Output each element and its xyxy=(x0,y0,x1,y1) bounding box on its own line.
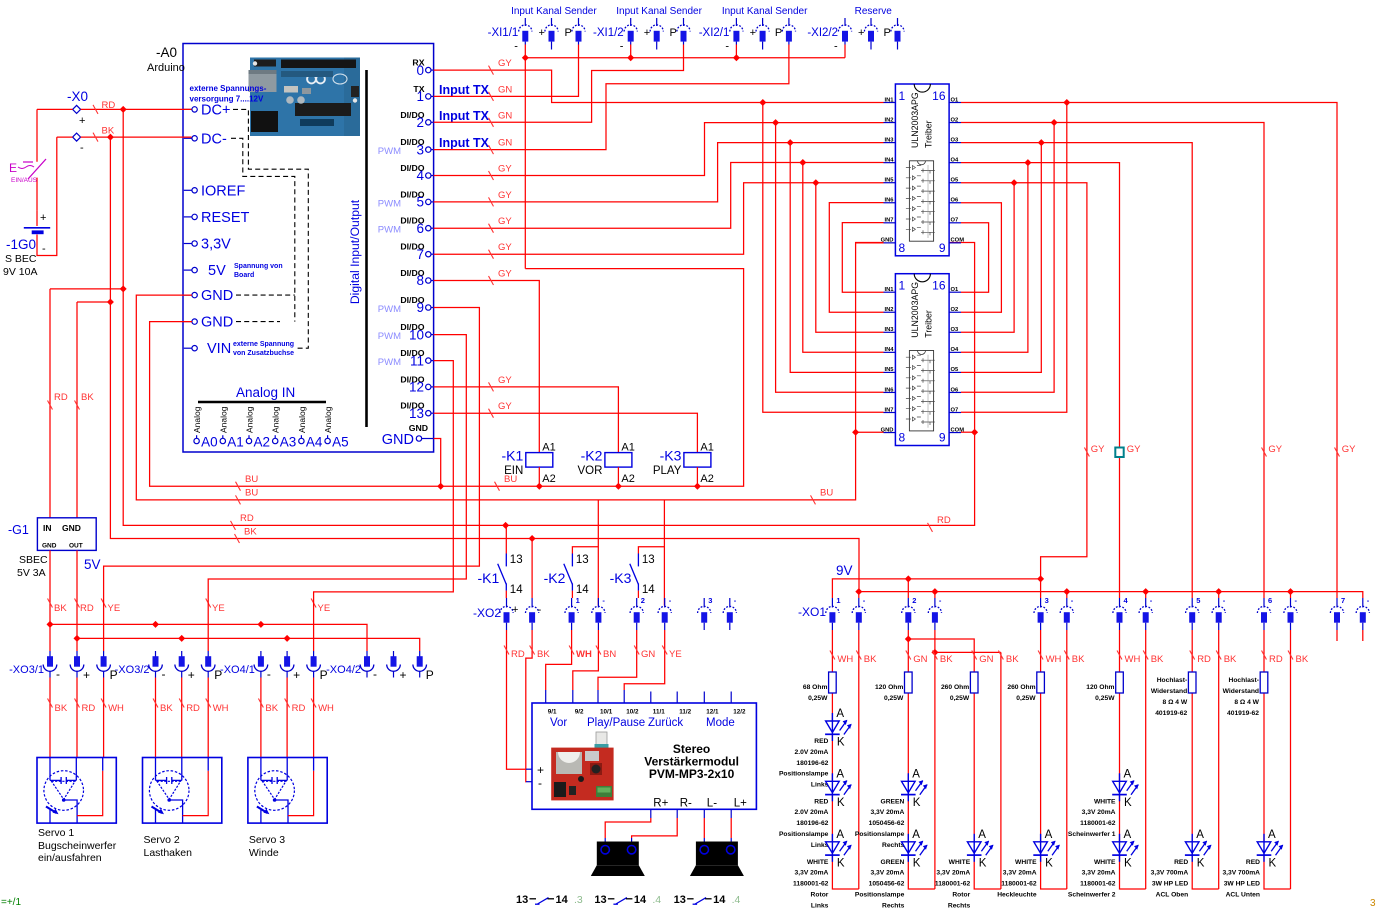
svg-text:3,3V 20mA: 3,3V 20mA xyxy=(870,870,904,877)
svg-text:Input TX: Input TX xyxy=(439,136,490,150)
svg-text:-XI2/1: -XI2/1 xyxy=(699,27,730,39)
svg-text:A: A xyxy=(836,708,844,720)
LED column 5 row 3 xyxy=(1112,829,1139,870)
svg-text:RESET: RESET xyxy=(201,210,249,226)
svg-text:RD: RD xyxy=(1197,654,1211,665)
contact -K3 13-14 xyxy=(610,554,656,597)
arduino pin GND bottom-right xyxy=(382,423,434,448)
svg-text:O7: O7 xyxy=(951,218,959,224)
svg-text:68 Ohm: 68 Ohm xyxy=(803,684,828,691)
svg-text:Treiber: Treiber xyxy=(924,120,934,148)
connector -XO4/1 xyxy=(220,664,255,676)
junction dot bus XI1/1 xyxy=(522,54,529,61)
svg-text:1180001-62: 1180001-62 xyxy=(935,881,971,888)
wire minus bus servo connectors xyxy=(50,624,367,651)
-XO3/1 pin + xyxy=(70,651,84,678)
connector XO1 pin 2 xyxy=(902,598,915,630)
svg-text:1: 1 xyxy=(899,279,906,293)
svg-text:IN2: IN2 xyxy=(884,307,893,313)
svg-text:P: P xyxy=(775,27,782,39)
analog in underline xyxy=(198,401,326,403)
module pin 11/1 xyxy=(651,692,665,716)
svg-text:Input Kanal Sender: Input Kanal Sender xyxy=(722,6,808,17)
arduino pin A2 xyxy=(245,406,271,449)
svg-text:.4: .4 xyxy=(652,894,661,906)
arduino pin 5V y=270.1 xyxy=(184,263,226,279)
svg-text:-: - xyxy=(80,142,84,154)
arduino pin DC+ y=109.4 xyxy=(184,102,231,118)
U1 pin O7 xyxy=(949,218,961,224)
svg-text:Input TX: Input TX xyxy=(439,109,490,123)
svg-text:IN5: IN5 xyxy=(884,178,894,184)
junction dot RD xyxy=(120,106,127,113)
svg-text:6: 6 xyxy=(416,221,424,236)
svg-text:K: K xyxy=(1124,797,1132,809)
svg-text:Arduino: Arduino xyxy=(147,62,185,74)
svg-text:Lasthaken: Lasthaken xyxy=(144,847,193,859)
svg-text:K: K xyxy=(1197,857,1205,869)
arduino module A0 outline xyxy=(183,44,434,453)
svg-text:0: 0 xyxy=(416,63,424,78)
U2 pin O2 xyxy=(949,307,961,313)
svg-text:O3: O3 xyxy=(951,327,960,333)
svg-text:SBEC: SBEC xyxy=(19,554,48,566)
svg-text:13: 13 xyxy=(409,406,424,421)
connector XO1 pin - xyxy=(1212,598,1225,630)
connector -XI1/1 pin + xyxy=(545,18,558,50)
svg-text:RD: RD xyxy=(937,515,951,526)
wire pin12 GY to relay K2 A1 xyxy=(434,387,619,453)
svg-text:K: K xyxy=(913,797,921,809)
svg-text:Reserve: Reserve xyxy=(855,6,893,17)
connector -XI2/2 pin P xyxy=(891,18,904,50)
svg-text:RED: RED xyxy=(1246,859,1260,866)
wire GND2 BU net relays xyxy=(150,269,744,487)
svg-text:O4: O4 xyxy=(951,347,960,353)
svg-text:IN3: IN3 xyxy=(884,137,894,143)
wire XO2 GN to module 10/1 xyxy=(598,630,637,690)
U2 pin O7 xyxy=(949,407,961,413)
module pin + xyxy=(526,763,544,777)
contact -K2 13-14 xyxy=(544,554,590,597)
connector -XI2/1 pin P xyxy=(782,18,795,45)
svg-text:RD: RD xyxy=(1269,654,1283,665)
connector XO1 pin - xyxy=(928,598,941,630)
svg-text:14: 14 xyxy=(556,894,569,906)
junction dot minus bus XO4/1 xyxy=(257,621,264,628)
U1 pin O3 xyxy=(949,137,961,143)
speaker right channel xyxy=(591,842,645,877)
wire LED column 6 feed xyxy=(1192,630,1219,889)
svg-text:OUT: OUT xyxy=(69,543,83,550)
contact reference 13-14 .4 xyxy=(674,894,741,906)
svg-text:L-: L- xyxy=(707,798,717,810)
svg-text:7: 7 xyxy=(1341,596,1345,605)
svg-text:5: 5 xyxy=(1196,596,1200,605)
junction dot branch col3 return xyxy=(931,649,938,656)
junction dot O1 pair xyxy=(1063,99,1070,106)
svg-text:3: 3 xyxy=(1370,898,1376,908)
junction dot rail1 O5 column xyxy=(1037,575,1044,582)
svg-text:-1G0: -1G0 xyxy=(6,237,36,252)
svg-text:16: 16 xyxy=(932,279,946,293)
driver IC U2 ULN2003APG box xyxy=(895,274,949,446)
wire -K1 A2 to BU xyxy=(538,467,540,486)
resistor column 2 120 Ohm 0,25W xyxy=(905,672,913,693)
wire top minus bus xyxy=(525,45,845,58)
junction dot rail2 at 1145.7 xyxy=(1142,588,1149,595)
LED column 4 row 3 xyxy=(1033,829,1060,870)
svg-text:K: K xyxy=(837,797,845,809)
svg-text:3,3V 20mA: 3,3V 20mA xyxy=(795,870,829,877)
U2 pin O3 xyxy=(949,327,961,333)
servo box at 260.9 xyxy=(248,758,327,824)
svg-text:S BEC: S BEC xyxy=(5,253,37,265)
wire IN4 pair to chip2 IN4 xyxy=(803,163,884,353)
svg-text:BK: BK xyxy=(864,654,877,665)
svg-text:IN7: IN7 xyxy=(884,407,893,413)
junction dot RD to K1-13 xyxy=(502,522,509,529)
svg-text:Rechts: Rechts xyxy=(882,902,905,908)
svg-text:K: K xyxy=(1124,857,1132,869)
svg-text:-K3: -K3 xyxy=(660,448,682,464)
svg-text:Mode: Mode xyxy=(706,717,735,729)
svg-text:A1: A1 xyxy=(542,442,555,454)
svg-text:3,3V 700mA: 3,3V 700mA xyxy=(1151,870,1189,877)
svg-text:GREEN: GREEN xyxy=(881,859,905,866)
wire pin6 GY to chip1 IN4 xyxy=(434,163,884,229)
arduino pin VIN y=348.2 xyxy=(184,341,231,357)
svg-text:-: - xyxy=(514,41,518,53)
arduino pin 9 xyxy=(378,295,434,315)
svg-text:-K1: -K1 xyxy=(478,570,500,586)
svg-text:E: E xyxy=(9,161,17,175)
svg-text:GY: GY xyxy=(498,190,512,201)
svg-text:10/1: 10/1 xyxy=(600,709,613,716)
junction dot RD to G1 xyxy=(120,285,127,292)
svg-text:3,3V 20mA: 3,3V 20mA xyxy=(870,809,904,816)
arduino pin A0 xyxy=(192,406,218,449)
wire pin13 GY to relay K3 A1 xyxy=(434,413,698,452)
connector X0 pin 2 diamond xyxy=(73,133,81,141)
svg-text:GY: GY xyxy=(498,58,512,69)
-XO4/1 pin + xyxy=(280,651,294,678)
svg-text:EIN: EIN xyxy=(504,465,523,477)
svg-text:GN: GN xyxy=(498,111,512,122)
LED column 5 row 2 xyxy=(1112,768,1139,809)
svg-text:Links: Links xyxy=(811,902,829,908)
svg-text:14: 14 xyxy=(642,584,655,596)
arduino pin 7 xyxy=(400,242,433,262)
wire IN1 pair to chip2 IN7 xyxy=(763,103,884,413)
junction dot rail2 at 1218.7 xyxy=(1215,588,1222,595)
svg-text:8: 8 xyxy=(416,273,424,288)
wire rail2 to XO1 minus1 xyxy=(858,592,860,598)
junction dot IN2 xyxy=(772,119,779,126)
svg-text:Analog: Analog xyxy=(218,406,228,433)
svg-text:O1: O1 xyxy=(951,287,960,293)
svg-text:Servo 1: Servo 1 xyxy=(38,827,74,839)
svg-text:Zurück: Zurück xyxy=(648,717,683,729)
svg-text:9: 9 xyxy=(939,241,946,255)
svg-text:1050456-62: 1050456-62 xyxy=(869,881,905,888)
connector XO1 pin - xyxy=(1284,598,1297,630)
svg-text:BK: BK xyxy=(1072,654,1085,665)
svg-text:1: 1 xyxy=(576,596,580,605)
junction dot plus bus XO3/2 xyxy=(178,635,185,642)
svg-text:O6: O6 xyxy=(951,387,960,393)
svg-text:RD: RD xyxy=(240,513,254,524)
svg-text:-X0: -X0 xyxy=(67,89,88,104)
resistor column 4 260 Ohm 0,25W xyxy=(1037,672,1045,693)
-XO3/2 pin P xyxy=(201,651,215,678)
relay coil -K2 VOR xyxy=(577,442,634,486)
junction dot BK XO2 pin2 xyxy=(529,535,536,542)
svg-text:0,25W: 0,25W xyxy=(1095,695,1115,702)
arduino pin 6 xyxy=(378,216,434,236)
svg-text:IN5: IN5 xyxy=(884,367,894,373)
junction dot bus XI2/1 xyxy=(733,54,740,61)
wire rail1 to XO1 pin2 xyxy=(907,579,909,598)
wire RD branch to G1 IN xyxy=(50,289,123,518)
svg-text:+: + xyxy=(858,27,864,39)
svg-text:IN6: IN6 xyxy=(884,198,894,204)
svg-text:2: 2 xyxy=(912,596,916,605)
wire XO2 RD to module plus xyxy=(507,630,527,769)
junction dot BU K1 A2 xyxy=(536,483,543,490)
svg-text:-: - xyxy=(373,667,377,681)
module pin 10/1 xyxy=(598,690,613,716)
svg-text:-XO3/1: -XO3/1 xyxy=(9,664,44,676)
wire R+ to speaker1 xyxy=(605,818,651,838)
svg-text:Hochlast-: Hochlast- xyxy=(1157,677,1187,684)
U1 pin IN6 xyxy=(884,198,896,204)
svg-text:Hochlast-: Hochlast- xyxy=(1229,677,1259,684)
LED column 3 row 3 xyxy=(967,829,994,870)
svg-text:A: A xyxy=(1268,829,1276,841)
svg-text:O2: O2 xyxy=(951,117,959,123)
connector -XI2/2 pin + xyxy=(864,18,877,50)
junction dot BK xyxy=(107,134,114,141)
wire BK branch to G1 GND xyxy=(77,302,110,518)
-XO4/2 pin - xyxy=(360,651,374,678)
wire IN2 pair to chip2 IN6 xyxy=(776,123,884,393)
dashed stub GND2 xyxy=(236,321,280,323)
U2 pin IN4 xyxy=(884,347,896,353)
junction dot O3 pair xyxy=(1038,139,1045,146)
svg-text:GND: GND xyxy=(201,288,233,304)
svg-text:RED: RED xyxy=(814,798,828,805)
wire LED column 4 return xyxy=(1066,630,1068,889)
svg-text:Rechts: Rechts xyxy=(948,902,971,908)
arduino pin A1 xyxy=(218,406,244,449)
module pin 9/1 xyxy=(546,690,557,716)
svg-text:-: - xyxy=(267,667,271,681)
wire chip1 GND stub to BU xyxy=(856,242,884,244)
svg-text:+: + xyxy=(400,668,407,682)
wire chip1 O7 pair to chip2 O7 xyxy=(961,223,989,292)
wire DC+ from X0 to arduino xyxy=(37,108,192,110)
arduino pin 2 xyxy=(400,110,433,130)
connector -XO4/2 xyxy=(326,664,361,676)
wire 9V rail1 xyxy=(832,579,1040,598)
svg-text:ACL Unten: ACL Unten xyxy=(1226,892,1260,899)
wire -XO4/1 to servo box xyxy=(261,678,314,758)
wire LED column 6 return xyxy=(1218,630,1220,889)
wire rail2 stub at 1066.8 xyxy=(1066,592,1068,598)
connector XO1 pin 1 xyxy=(826,598,839,630)
wire XO2 WH to module 9/1 xyxy=(546,630,572,690)
wire R- to speaker1 xyxy=(632,818,678,838)
wire chip1 O5 to 9V rail and XO1 pin3 xyxy=(961,183,1087,598)
svg-text:GN: GN xyxy=(641,649,655,660)
svg-text:BU: BU xyxy=(245,488,258,499)
svg-text:P: P xyxy=(565,27,572,39)
connector -XI1/2 pin P xyxy=(677,18,690,45)
svg-text:5V: 5V xyxy=(84,557,101,572)
wire XO2 pin2 feed from BK xyxy=(531,539,533,599)
svg-text:-XI1/1: -XI1/1 xyxy=(488,27,519,39)
svg-text:externe Spannungs-: externe Spannungs- xyxy=(190,84,267,93)
svg-text:401919-62: 401919-62 xyxy=(1155,710,1187,717)
svg-text:Digital Input/Output: Digital Input/Output xyxy=(348,199,362,304)
svg-text:10: 10 xyxy=(409,327,424,342)
svg-text:A: A xyxy=(912,768,920,780)
wire RD main vertical and distribution xyxy=(123,109,974,525)
svg-text:3W HP LED: 3W HP LED xyxy=(1152,881,1188,888)
module pin R+ xyxy=(651,798,669,819)
wire -K2 A2 to BU xyxy=(617,467,619,486)
svg-text:+: + xyxy=(537,763,544,777)
svg-text:-: - xyxy=(42,243,46,255)
svg-text:GN: GN xyxy=(913,654,927,665)
svg-text:IN3: IN3 xyxy=(884,327,894,333)
U1 pin COM xyxy=(949,238,964,244)
arduino pin DC- y=138.3 xyxy=(184,131,227,147)
wire LED column 7 feed xyxy=(1264,630,1291,889)
svg-text:11/1: 11/1 xyxy=(653,709,665,716)
svg-text:Input Kanal Sender: Input Kanal Sender xyxy=(616,6,702,17)
svg-text:YE: YE xyxy=(108,603,121,614)
svg-text:-XO3/2: -XO3/2 xyxy=(115,664,150,676)
svg-text:13: 13 xyxy=(576,554,589,566)
U1 pin IN4 xyxy=(884,157,896,163)
svg-text:A2: A2 xyxy=(621,473,634,485)
svg-text:BK: BK xyxy=(1151,654,1164,665)
wire O5 pair to chip2 O5 xyxy=(961,183,1014,333)
svg-text:120 Ohm: 120 Ohm xyxy=(875,684,903,691)
svg-text:GND: GND xyxy=(42,543,57,550)
wire speaker1 terminal stubs xyxy=(605,838,631,844)
svg-text:120 Ohm: 120 Ohm xyxy=(1086,684,1114,691)
svg-text:GND: GND xyxy=(881,427,894,433)
svg-text:RED: RED xyxy=(814,738,828,745)
svg-text:-: - xyxy=(56,667,60,681)
svg-text:Widerstand: Widerstand xyxy=(1223,688,1259,695)
svg-text:BK: BK xyxy=(1296,654,1309,665)
svg-text:P: P xyxy=(884,27,891,39)
module pin R- xyxy=(677,798,692,819)
svg-text:A: A xyxy=(1124,768,1132,780)
svg-text:5: 5 xyxy=(416,195,424,210)
svg-text:0,25W: 0,25W xyxy=(950,695,970,702)
svg-text:IN1: IN1 xyxy=(884,287,894,293)
-XO4/1 pin P xyxy=(307,651,321,678)
svg-text:A: A xyxy=(912,829,920,841)
arduino pin 0 xyxy=(412,58,433,78)
wire XO2 BK to module minus xyxy=(526,630,532,782)
branch minus2 to column3 return xyxy=(935,651,1001,653)
svg-text:GND: GND xyxy=(382,432,414,448)
svg-text:IN7: IN7 xyxy=(884,218,893,224)
LED column 6 row 3 xyxy=(1185,829,1212,870)
svg-text:IN4: IN4 xyxy=(884,157,894,163)
contact -K1 13-14 xyxy=(478,554,524,597)
svg-text:8 Ω 4 W: 8 Ω 4 W xyxy=(1163,699,1188,706)
svg-text:A0: A0 xyxy=(201,435,218,450)
connector XO1 pin 5 xyxy=(1186,598,1199,630)
svg-text:A4: A4 xyxy=(306,435,323,450)
svg-text:Analog: Analog xyxy=(323,406,333,433)
-XO4/2 pin + xyxy=(387,651,401,678)
svg-text:BU: BU xyxy=(820,488,833,499)
svg-text:PWM: PWM xyxy=(378,357,401,368)
svg-text:L+: L+ xyxy=(734,798,747,810)
svg-text:-A0: -A0 xyxy=(156,45,177,60)
svg-text:A2: A2 xyxy=(700,473,713,485)
junction dot BU K3 A2 xyxy=(694,483,701,490)
svg-text:YE: YE xyxy=(212,603,225,614)
svg-text:GN: GN xyxy=(979,654,993,665)
svg-text:2: 2 xyxy=(416,115,424,130)
module pin 9/2 xyxy=(573,690,584,716)
wire O4 pair to chip2 O4 xyxy=(961,163,1028,353)
U1 pin O2 xyxy=(949,117,961,123)
svg-text:Scheinwerfer 1: Scheinwerfer 1 xyxy=(1068,831,1116,838)
digital input/output separator bar xyxy=(365,70,368,427)
wire pin1 GN to XI1/1 P xyxy=(434,45,579,97)
wire LED column 1 return xyxy=(858,630,860,889)
svg-text:BK: BK xyxy=(537,649,550,660)
svg-text:7: 7 xyxy=(416,247,424,262)
svg-text:3,3V 20mA: 3,3V 20mA xyxy=(936,870,970,877)
wire XO2 YE to module 10/2 xyxy=(624,630,665,690)
wire -K3 A2 to BU xyxy=(696,467,698,486)
wire LED column 7 return xyxy=(1290,630,1292,889)
svg-text:260 Ohm: 260 Ohm xyxy=(941,684,969,691)
svg-text:-: - xyxy=(834,41,838,53)
connector -XO3/1 xyxy=(9,664,44,676)
svg-text:Positionslampe: Positionslampe xyxy=(779,771,829,778)
svg-text:3: 3 xyxy=(708,596,712,605)
svg-text:RD: RD xyxy=(186,703,200,714)
LED column 1 row 1 xyxy=(825,708,852,749)
svg-text:PWM: PWM xyxy=(378,331,401,342)
connector XO1 pin - xyxy=(852,598,865,630)
LED column 1 row 2 xyxy=(825,768,852,809)
wire L- to speaker2 xyxy=(703,818,705,838)
module pin 12/1 xyxy=(704,692,719,716)
svg-text:GY: GY xyxy=(1091,444,1105,455)
wire rail2 stub at 1145.7 xyxy=(1145,592,1147,598)
svg-text:Rotor: Rotor xyxy=(952,892,970,899)
svg-text:PLAY: PLAY xyxy=(653,465,682,477)
svg-text:14: 14 xyxy=(634,894,647,906)
svg-text:RED: RED xyxy=(1174,859,1188,866)
svg-text:RD: RD xyxy=(511,649,525,660)
U2 pin COM xyxy=(949,427,964,433)
wire chip1 IN7 pair to chip2 IN1 xyxy=(842,223,883,293)
